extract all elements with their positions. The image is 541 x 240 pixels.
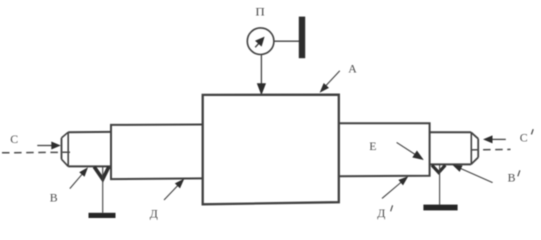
svg-text:С: С	[10, 132, 18, 146]
arrow C	[37, 145, 53, 147]
svg-text:П: П	[255, 5, 265, 19]
indicator stand bar	[299, 17, 305, 59]
dial indicator circle	[247, 28, 274, 55]
left centerline dashed	[2, 151, 72, 154]
left support stand line	[102, 167, 104, 213]
leader arrow E	[397, 142, 416, 155]
svg-text:А: А	[348, 62, 357, 76]
left V-block support	[94, 167, 109, 179]
left journal chamfered end cap	[61, 138, 63, 159]
wire dial to stand	[274, 40, 299, 42]
measurement arrow down to part A	[260, 54, 262, 84]
left journal body	[68, 131, 111, 133]
leader arrow D	[164, 184, 179, 200]
leader arrow A	[325, 71, 340, 87]
arrow C prime	[491, 138, 506, 140]
right V-block support	[432, 165, 445, 172]
left middle shaft section	[111, 125, 203, 180]
svg-text:С: С	[520, 130, 528, 144]
right ground bar	[423, 205, 457, 211]
central body A rectangle	[203, 95, 339, 205]
dial needle tail	[255, 43, 259, 47]
svg-text:Д: Д	[150, 206, 158, 220]
leader arrow B	[70, 173, 83, 188]
svg-text:В: В	[508, 171, 516, 185]
left ground bar	[89, 213, 116, 218]
dial needle arrowhead	[255, 37, 265, 47]
right journal body	[430, 131, 471, 133]
svg-text:В: В	[50, 191, 58, 205]
svg-text:Д: Д	[377, 206, 385, 220]
right centerline dashed	[471, 148, 511, 151]
right journal chamfered end cap	[477, 139, 479, 158]
svg-text:Е: Е	[369, 139, 376, 153]
right support stand line	[439, 165, 441, 205]
leader arrow B prime	[459, 168, 493, 183]
right middle shaft section	[339, 123, 430, 176]
leader arrow D prime	[382, 182, 402, 199]
